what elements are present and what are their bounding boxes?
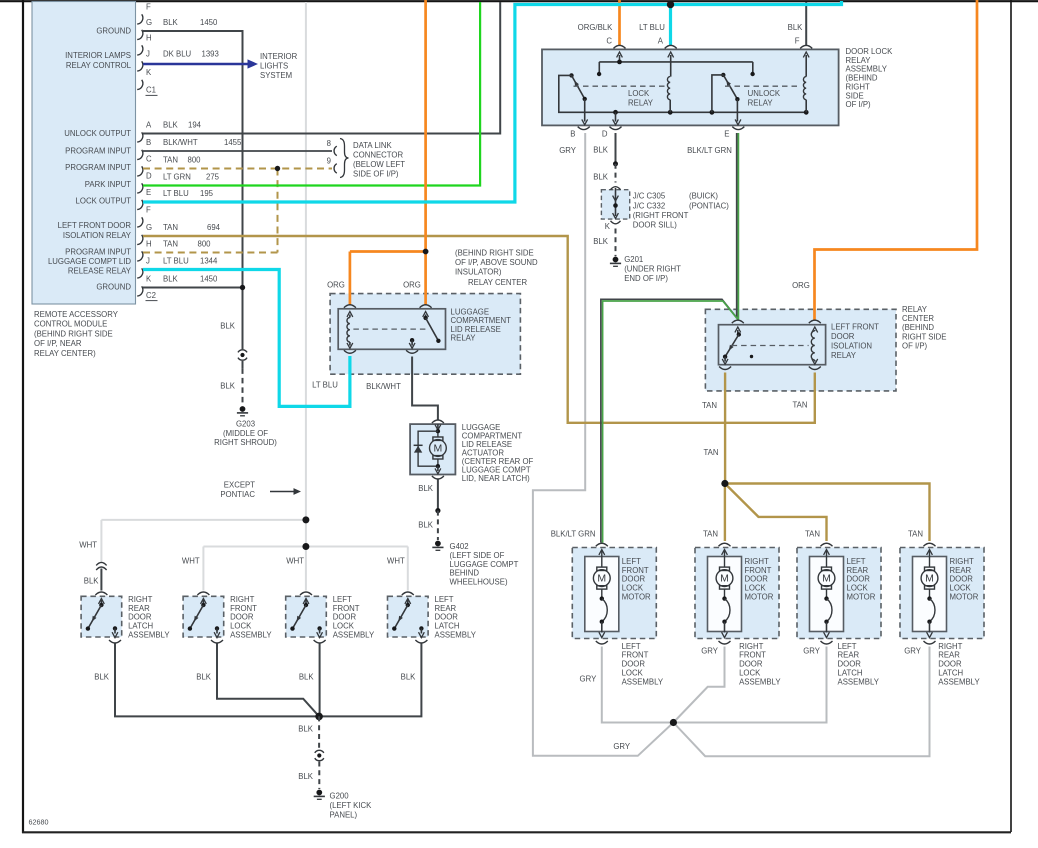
svg-text:MOTOR: MOTOR — [745, 593, 774, 602]
svg-text:D: D — [146, 172, 152, 181]
svg-text:DOOR: DOOR — [622, 575, 646, 584]
svg-text:BLK: BLK — [163, 18, 179, 27]
svg-text:END OF I/P): END OF I/P) — [624, 274, 668, 283]
junction connector J/C C305 dashed box — [601, 190, 629, 219]
data link connector pins 8 and 9 — [327, 139, 337, 173]
svg-text:K: K — [605, 222, 611, 231]
wire TAN isolation relay output to tan junction — [724, 373, 726, 484]
lock relay switch — [569, 73, 587, 125]
labels BLK at junction connector — [593, 145, 609, 246]
svg-text:DATA LINK: DATA LINK — [353, 141, 393, 150]
svg-text:GRY: GRY — [803, 646, 821, 655]
svg-text:GRY: GRY — [559, 146, 577, 155]
svg-text:LUGGAGE COMPT: LUGGAGE COMPT — [450, 560, 519, 569]
isolation relay text — [831, 323, 879, 361]
wire ORG to isolation relay — [815, 0, 978, 320]
svg-text:(BEHIND: (BEHIND — [846, 74, 878, 83]
svg-text:SIDE: SIDE — [846, 91, 864, 100]
svg-text:LT BLU: LT BLU — [639, 23, 665, 32]
svg-text:REAR: REAR — [950, 566, 972, 575]
svg-text:REAR: REAR — [847, 566, 869, 575]
svg-text:A: A — [658, 36, 664, 45]
actuator input wire and splice — [435, 424, 441, 433]
label BLK/WHT 1455 pin B — [163, 138, 242, 147]
svg-text:800: 800 — [188, 156, 202, 165]
svg-text:INTERIOR LAMPS: INTERIOR LAMPS — [65, 51, 131, 60]
svg-text:BLK: BLK — [220, 382, 236, 391]
svg-text:ASSEMBLY: ASSEMBLY — [838, 677, 880, 686]
svg-text:LUGGAGE COMPT LID: LUGGAGE COMPT LID — [48, 257, 131, 266]
labels BLK at latch outputs — [94, 673, 416, 682]
svg-text:DOOR: DOOR — [938, 660, 962, 669]
svg-text:BLK/WHT: BLK/WHT — [366, 382, 401, 391]
svg-text:DOOR SILL): DOOR SILL) — [633, 221, 678, 230]
svg-text:RELAY: RELAY — [846, 56, 872, 65]
svg-text:EXCEPT: EXCEPT — [224, 481, 255, 490]
door lock relay assembly box — [542, 49, 839, 125]
svg-text:LOCK OUTPUT: LOCK OUTPUT — [76, 197, 132, 206]
door lock relay bottom pin caps and letters — [570, 127, 744, 139]
label BLK right rear latch — [84, 577, 100, 586]
unlock relay coil L2 — [803, 52, 809, 112]
svg-text:1450: 1450 — [200, 18, 218, 27]
svg-text:RIGHT: RIGHT — [745, 557, 769, 566]
svg-text:DOOR LOCK: DOOR LOCK — [846, 47, 894, 56]
left rear door lock motor dashed box — [797, 548, 881, 639]
svg-text:ISOLATION RELAY: ISOLATION RELAY — [63, 231, 132, 240]
wire TAN to left rear door lock motor — [725, 484, 827, 542]
right front door lock motor inner box — [708, 557, 742, 632]
remote accessory control module U1 — [32, 2, 136, 305]
svg-text:LIGHTS: LIGHTS — [260, 62, 288, 71]
svg-text:800: 800 — [198, 240, 212, 249]
isolation relay switch — [722, 327, 753, 364]
svg-text:REMOTE ACCESSORY: REMOTE ACCESSORY — [34, 310, 119, 319]
svg-text:LEFT: LEFT — [622, 642, 641, 651]
svg-text:ASSEMBLY: ASSEMBLY — [739, 677, 781, 686]
svg-text:LID, NEAR LATCH): LID, NEAR LATCH) — [462, 474, 530, 483]
label BLK 1450 pin G — [163, 18, 218, 27]
svg-text:DK BLU: DK BLU — [163, 50, 192, 59]
svg-text:MOTOR: MOTOR — [847, 593, 876, 602]
left rear door lock motor pin caps — [821, 543, 833, 644]
svg-text:LT BLU: LT BLU — [163, 257, 189, 266]
labels ORG luggage relay — [327, 281, 421, 290]
svg-text:LEFT FRONT: LEFT FRONT — [831, 323, 879, 332]
svg-text:RELAY CENTER: RELAY CENTER — [468, 278, 527, 287]
wire TAN to right front door lock motor — [724, 484, 726, 542]
svg-text:LATCH: LATCH — [838, 669, 863, 678]
svg-text:LOCK: LOCK — [628, 89, 650, 98]
left rear door latch assembly name text — [435, 595, 477, 640]
svg-text:M: M — [822, 573, 831, 585]
svg-text:RELAY CENTER): RELAY CENTER) — [34, 349, 96, 358]
svg-text:F: F — [146, 206, 151, 215]
right rear door lock motor assembly text — [938, 642, 980, 687]
luggage relay linkage dashed — [353, 328, 427, 330]
svg-text:DOOR: DOOR — [622, 660, 646, 669]
label LT BLU 1344 pin J2 — [163, 257, 218, 266]
svg-text:WHT: WHT — [387, 556, 405, 565]
svg-text:C1: C1 — [146, 86, 156, 95]
svg-text:TAN: TAN — [703, 529, 718, 538]
svg-text:FRONT: FRONT — [230, 604, 257, 613]
svg-text:SIDE OF I/P): SIDE OF I/P) — [353, 170, 399, 179]
svg-text:275: 275 — [206, 173, 220, 182]
svg-text:DOOR: DOOR — [435, 613, 459, 622]
luggage compartment lid release actuator box — [410, 424, 455, 474]
svg-text:ASSEMBLY: ASSEMBLY — [938, 677, 980, 686]
right front door lock assembly name text — [230, 595, 272, 640]
lock relay linkage dashed — [574, 85, 665, 87]
svg-text:LATCH: LATCH — [938, 669, 963, 678]
right front door lock motor name text — [745, 557, 774, 602]
label TAN 694 pin G2 — [163, 223, 221, 232]
svg-text:LOCK: LOCK — [230, 622, 252, 631]
svg-text:(LEFT KICK: (LEFT KICK — [330, 801, 373, 810]
svg-text:RELAY: RELAY — [451, 334, 477, 343]
left front door lock assembly name text — [333, 595, 375, 640]
svg-text:LOCK: LOCK — [622, 584, 644, 593]
luggage relay pin caps — [344, 305, 432, 354]
svg-text:BLK: BLK — [84, 577, 100, 586]
svg-text:WHT: WHT — [182, 556, 200, 565]
svg-text:RIGHT SIDE: RIGHT SIDE — [902, 332, 946, 341]
label BLK above G203 — [220, 321, 236, 390]
svg-text:BLK/WHT: BLK/WHT — [163, 138, 198, 147]
left front door lock motor motor symbol — [593, 550, 610, 590]
svg-text:J: J — [146, 257, 150, 266]
svg-text:(BELOW LEFT: (BELOW LEFT — [353, 160, 405, 169]
label LT GRN 275 pin D — [163, 173, 220, 182]
luggage actuator text — [462, 423, 534, 483]
svg-text:FRONT: FRONT — [745, 566, 772, 575]
left front door lock assembly switch — [290, 599, 322, 638]
module connector C1 pins F G H J K — [137, 3, 157, 96]
svg-text:ASSEMBLY: ASSEMBLY — [128, 631, 170, 640]
svg-text:BLK: BLK — [593, 145, 609, 154]
right rear door lock motor position switch — [927, 589, 935, 638]
svg-text:RELEASE RELAY: RELEASE RELAY — [68, 266, 132, 275]
svg-text:F: F — [146, 3, 151, 12]
svg-text:LEFT: LEFT — [838, 642, 857, 651]
svg-text:BLK: BLK — [163, 121, 179, 130]
labels TAN above motors — [703, 529, 923, 538]
data link connector text — [353, 141, 405, 179]
svg-text:G201: G201 — [624, 255, 643, 264]
junction BLK 1450 pin K splice — [143, 285, 245, 290]
left front door isolation relay dashed box relay center — [705, 309, 896, 391]
right front door lock motor assembly text — [739, 642, 781, 687]
svg-text:INSULATOR): INSULATOR) — [455, 268, 502, 277]
svg-text:G203: G203 — [236, 419, 255, 428]
svg-text:LOCK: LOCK — [847, 584, 869, 593]
left rear door lock motor motor symbol — [818, 550, 835, 590]
svg-text:TAN: TAN — [703, 448, 718, 457]
svg-text:ASSEMBLY: ASSEMBLY — [435, 631, 477, 640]
svg-text:ORG/BLK: ORG/BLK — [578, 23, 613, 32]
luggage relay text — [451, 307, 512, 342]
wire BLK actuator to G402 — [435, 479, 440, 540]
door lock relay top pin caps and letters — [606, 36, 812, 48]
svg-text:H: H — [146, 240, 152, 249]
luggage relay coil L3 — [347, 312, 353, 349]
labels LT BLU BLK/WHT luggage relay — [312, 381, 401, 392]
svg-text:(BEHIND RIGHT SIDE: (BEHIND RIGHT SIDE — [455, 249, 534, 258]
svg-text:BEHIND: BEHIND — [450, 569, 480, 578]
lock relay text — [628, 89, 654, 108]
interior lights system text — [260, 52, 298, 80]
svg-text:BLK: BLK — [196, 673, 212, 682]
left front door lock motor assembly text — [622, 642, 664, 687]
junction WHT at except-Pontiac upper — [302, 516, 309, 523]
svg-text:WHT: WHT — [79, 541, 97, 550]
wire BLK/WHT luggage relay to actuator — [412, 357, 438, 420]
svg-text:LEFT: LEFT — [435, 595, 454, 604]
svg-text:LUGGAGE: LUGGAGE — [451, 307, 490, 316]
ground G402 — [432, 541, 518, 587]
svg-text:LEFT: LEFT — [847, 557, 866, 566]
svg-text:(BUICK): (BUICK) — [689, 192, 718, 201]
svg-text:F: F — [795, 36, 800, 45]
junction GRY common — [670, 719, 677, 726]
svg-text:LT GRN: LT GRN — [163, 173, 191, 182]
wire BLK door lock relay pin D to junction connector — [613, 133, 618, 183]
svg-text:BLK: BLK — [788, 23, 804, 32]
svg-text:REAR: REAR — [435, 604, 457, 613]
junction connector internal wire and pin K — [605, 187, 621, 231]
svg-text:ASSEMBLY: ASSEMBLY — [230, 631, 272, 640]
left rear door latch assembly switch — [392, 599, 424, 638]
svg-text:BLK: BLK — [593, 237, 609, 246]
svg-text:RELAY: RELAY — [628, 98, 654, 107]
lock relay coil L1 — [667, 52, 673, 112]
labels BLK at actuator output — [418, 484, 434, 529]
left rear door latch assembly dashed box — [388, 596, 429, 637]
left rear door lock motor inner box — [810, 557, 844, 632]
diagram number label 62680 — [29, 818, 49, 827]
wire BLK junction connector to G201 — [615, 229, 617, 257]
wire TAN to right rear door lock motor — [725, 484, 930, 542]
svg-text:FRONT: FRONT — [622, 651, 649, 660]
except pontiac note and arrow — [220, 481, 301, 500]
svg-text:K: K — [146, 68, 152, 77]
wire WHT rail to front and left rear latches — [203, 547, 407, 591]
labels BLK/LT GRN — [551, 146, 732, 539]
svg-text:CONTROL MODULE: CONTROL MODULE — [34, 320, 107, 329]
wire WHT main vertical except-Pontiac feed — [305, 2, 307, 591]
svg-text:RELAY: RELAY — [902, 305, 928, 314]
label DK BLU 1393 pin J — [163, 50, 219, 59]
svg-text:BLK: BLK — [418, 484, 434, 493]
svg-text:BLK/LT GRN: BLK/LT GRN — [687, 146, 732, 155]
svg-text:WHT: WHT — [286, 556, 304, 565]
right front door lock motor pin caps — [719, 543, 731, 644]
svg-text:BLK: BLK — [593, 173, 609, 182]
ground G201 — [610, 255, 681, 283]
right rear door lock motor pin caps — [924, 543, 936, 644]
svg-text:195: 195 — [200, 189, 214, 198]
wire BLK/WHT 1455 to DLC pin 8 — [143, 150, 332, 152]
luggage compartment lid release relay dashed box — [330, 294, 520, 375]
svg-text:LATCH: LATCH — [128, 622, 153, 631]
left rear door lock motor position switch — [824, 589, 832, 638]
door lock relay feed rail from pin C — [597, 52, 755, 76]
ground G200 — [314, 790, 372, 820]
svg-text:LEFT FRONT DOOR: LEFT FRONT DOOR — [58, 221, 132, 230]
svg-text:1393: 1393 — [202, 50, 219, 59]
right front door lock motor motor symbol — [716, 550, 733, 590]
luggage relay inner box — [338, 309, 445, 350]
right front door lock assembly dashed box — [183, 596, 224, 637]
label ORG isolation relay — [792, 281, 810, 290]
wire LT BLU 1344 to luggage relay coil — [143, 270, 350, 407]
svg-text:BLK: BLK — [163, 275, 179, 284]
svg-text:TAN: TAN — [163, 240, 178, 249]
svg-text:8: 8 — [327, 139, 331, 148]
left rear door latch assembly pin caps — [402, 592, 428, 643]
svg-text:C2: C2 — [146, 291, 156, 300]
svg-text:DOOR: DOOR — [847, 575, 871, 584]
wire BLK latch outputs to common junction — [115, 643, 421, 716]
svg-text:G200: G200 — [330, 791, 350, 800]
svg-text:BLK: BLK — [94, 673, 110, 682]
svg-text:ORG: ORG — [403, 281, 421, 290]
door lock relay assembly text — [846, 47, 894, 109]
svg-text:G: G — [146, 18, 152, 27]
wire GRY from door lock relay pin B to gray junction — [533, 133, 674, 756]
svg-text:RIGHT: RIGHT — [950, 557, 974, 566]
svg-text:BLK/LT GRN: BLK/LT GRN — [551, 529, 596, 538]
svg-text:REAR: REAR — [128, 604, 150, 613]
svg-text:OF I/P): OF I/P) — [902, 341, 928, 350]
svg-text:DOOR: DOOR — [333, 613, 357, 622]
ground G203 — [214, 406, 277, 447]
svg-text:PROGRAM INPUT: PROGRAM INPUT — [65, 163, 131, 172]
svg-text:RIGHT: RIGHT — [938, 642, 962, 651]
right rear door lock motor dashed box — [900, 548, 984, 639]
svg-text:UNLOCK OUTPUT: UNLOCK OUTPUT — [64, 129, 131, 138]
svg-text:E: E — [724, 130, 729, 139]
unlock relay text — [748, 89, 781, 108]
actuator pin caps — [432, 420, 444, 479]
luggage relay switch — [409, 312, 440, 349]
svg-text:M: M — [925, 573, 934, 585]
wire WHT branch to right rear latch — [101, 520, 306, 562]
left front door lock motor position switch — [599, 589, 607, 638]
svg-text:COMPARTMENT: COMPARTMENT — [451, 316, 512, 325]
isolation relay pin caps — [719, 320, 821, 369]
svg-text:BLK: BLK — [299, 673, 315, 682]
svg-text:GRY: GRY — [701, 646, 719, 655]
labels GRY below motors — [580, 646, 922, 750]
svg-text:LEFT: LEFT — [622, 557, 641, 566]
svg-text:ORG: ORG — [327, 281, 345, 290]
label BLK 194 pin A — [163, 121, 202, 130]
wire LT GRN 275 park input off-page — [143, 2, 480, 186]
right front door lock assembly switch — [188, 599, 220, 638]
svg-text:CONNECTOR: CONNECTOR — [353, 150, 403, 159]
svg-text:(LEFT SIDE OF: (LEFT SIDE OF — [450, 551, 505, 560]
svg-text:LOCK: LOCK — [745, 584, 767, 593]
svg-text:RIGHT: RIGHT — [128, 595, 152, 604]
svg-text:DOOR: DOOR — [745, 575, 769, 584]
svg-text:A: A — [146, 121, 152, 130]
svg-text:M: M — [720, 573, 729, 585]
right front door lock assembly pin caps — [197, 592, 223, 643]
svg-text:DOOR: DOOR — [230, 613, 254, 622]
wire TAN 694 module to isolation relay coil — [143, 236, 815, 423]
svg-text:G: G — [146, 223, 152, 232]
left front door lock motor dashed box — [572, 548, 656, 639]
svg-text:RIGHT: RIGHT — [846, 82, 870, 91]
right rear door latch assembly switch — [86, 599, 118, 638]
junction connector text — [633, 192, 730, 230]
module connector C2 pins A-K — [137, 121, 157, 301]
svg-text:LT BLU: LT BLU — [163, 189, 189, 198]
svg-text:OF I/P): OF I/P) — [846, 100, 872, 109]
svg-text:RIGHT SHROUD): RIGHT SHROUD) — [214, 438, 277, 447]
svg-text:E: E — [146, 188, 151, 197]
svg-text:LATCH: LATCH — [435, 622, 460, 631]
right rear door latch assembly name text — [128, 595, 170, 640]
left rear door lock motor name text — [847, 557, 876, 602]
svg-text:D: D — [602, 130, 608, 139]
svg-text:GRY: GRY — [580, 675, 598, 684]
junction TAN 800 splice — [275, 166, 280, 171]
labels TAN near isolation relay — [702, 401, 808, 458]
svg-text:DOOR: DOOR — [950, 575, 974, 584]
svg-text:GROUND: GROUND — [96, 283, 131, 292]
right front door lock motor dashed box — [695, 548, 779, 639]
svg-text:B: B — [146, 138, 151, 147]
svg-text:1344: 1344 — [200, 257, 218, 266]
diode D1 — [414, 431, 438, 466]
svg-text:694: 694 — [207, 223, 221, 232]
svg-text:TAN: TAN — [805, 529, 820, 538]
svg-text:TAN: TAN — [702, 401, 717, 410]
svg-text:K: K — [146, 275, 152, 284]
svg-text:BLK: BLK — [298, 772, 314, 781]
wire ORG to luggage relay — [350, 0, 426, 305]
lock relay common rail — [559, 75, 809, 124]
svg-text:BLK: BLK — [220, 321, 236, 330]
svg-text:SYSTEM: SYSTEM — [260, 71, 292, 80]
svg-text:LT BLU: LT BLU — [312, 381, 338, 390]
svg-text:(PONTIAC): (PONTIAC) — [689, 201, 729, 210]
svg-text:TAN: TAN — [792, 401, 807, 410]
label GRY door lock relay pin B — [559, 146, 577, 155]
svg-text:OF I/P, ABOVE SOUND: OF I/P, ABOVE SOUND — [455, 258, 538, 267]
wire GRY right front motor branch — [673, 647, 724, 723]
svg-text:PARK INPUT: PARK INPUT — [85, 180, 131, 189]
svg-text:RELAY: RELAY — [831, 351, 857, 360]
left front door lock motor inner box — [585, 557, 619, 632]
module text remote accessory control module location — [34, 310, 119, 358]
right rear door lock motor inner box — [913, 557, 947, 632]
labels WHT above latches — [79, 541, 405, 566]
svg-text:BLK: BLK — [418, 520, 434, 529]
right rear door lock motor motor symbol — [921, 550, 938, 590]
svg-text:PROGRAM INPUT: PROGRAM INPUT — [65, 248, 131, 257]
svg-text:C: C — [606, 36, 612, 45]
label LT BLU 195 pin E — [163, 189, 214, 198]
svg-text:RIGHT: RIGHT — [739, 642, 763, 651]
right front door lock motor position switch — [722, 589, 730, 638]
wire TAN 800 dashed to DLC pin 9 — [143, 168, 332, 170]
svg-text:RELAY CONTROL: RELAY CONTROL — [66, 61, 132, 70]
svg-text:ASSEMBLY: ASSEMBLY — [846, 65, 888, 74]
